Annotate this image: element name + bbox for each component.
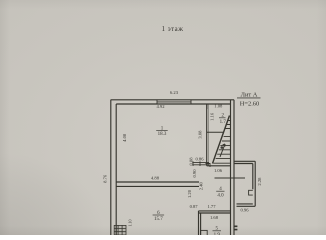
svg-text:18.3: 18.3 [158,132,167,137]
svg-text:1.06: 1.06 [214,168,223,173]
svg-text:4.08: 4.08 [122,133,127,142]
wall left inner [115,104,117,235]
svg-text:15.7: 15.7 [154,217,163,222]
wall room5 west double [199,211,201,235]
svg-text:2.40: 2.40 [198,181,203,190]
wall right inner [230,100,232,235]
svg-text:1.20: 1.20 [187,189,192,198]
svg-text:0.86: 0.86 [195,157,204,162]
staircase steps [213,121,230,164]
wall stair hall west inner faint [208,104,210,166]
bay right wall [253,161,255,206]
svg-text:0.88: 0.88 [188,157,193,166]
window W1 left tick [156,100,158,104]
svg-text:0.87: 0.87 [190,204,199,209]
svg-text:0.96: 0.96 [240,207,249,212]
sanitary fixture box [201,230,208,236]
wall right outer [233,100,235,235]
bay inner notch [249,190,253,195]
window W1 middle line [157,101,191,103]
dim tick at stair hall top [206,104,208,109]
bay top wall double [234,161,255,163]
svg-text:Н=2.60: Н=2.60 [240,101,259,108]
door threshold double line near hall [193,161,210,167]
wall top outer [111,99,234,101]
svg-text:1.77: 1.77 [207,204,216,209]
window W1 right tick [190,100,192,104]
wall room1-room6 upper line [116,181,199,183]
svg-text:3.08: 3.08 [198,130,203,139]
svg-text:2.28: 2.28 [257,177,262,186]
svg-text:1.08: 1.08 [214,103,223,108]
dim tick line into bay [215,177,246,179]
svg-text:6.23: 6.23 [170,90,179,95]
stove hatched box bottom-left [114,225,126,235]
svg-text:4.0: 4.0 [217,193,224,198]
bay bottom wall double [237,204,256,206]
staircase landing line [207,131,224,133]
svg-text:1.68: 1.68 [210,215,219,220]
wall stair hall west [206,104,208,166]
svg-text:4.92: 4.92 [156,104,165,109]
underline of Lit A [237,97,261,99]
wall stair hall bottom [207,165,231,167]
svg-text:1.16: 1.16 [209,112,214,121]
svg-text:0.90: 0.90 [192,169,197,178]
wall top inner [116,103,230,105]
wall mark right below bay [234,226,237,229]
svg-text:Лит А: Лит А [241,91,258,98]
svg-text:1.10: 1.10 [127,220,132,227]
wall left outer [110,100,112,235]
svg-text:4.88: 4.88 [151,176,160,181]
staircase stringer diagonal [213,116,230,164]
staircase up arrow [220,144,225,157]
wall room1-room6 lower line [116,185,199,187]
svg-text:1 этаж: 1 этаж [162,26,184,33]
svg-text:1.7: 1.7 [220,120,227,125]
svg-text:1.9: 1.9 [214,233,221,235]
svg-text:8.76: 8.76 [103,174,108,183]
wall room4-room5 top double [199,211,231,213]
staircase arrow dot [221,146,224,149]
